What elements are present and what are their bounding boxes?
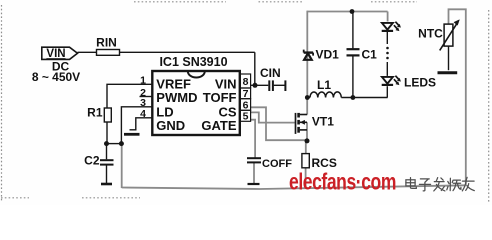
svg-text:LD: LD (156, 104, 173, 119)
svg-text:7: 7 (243, 88, 249, 100)
svg-text:8 ~ 450V: 8 ~ 450V (32, 70, 80, 84)
svg-text:CIN: CIN (260, 66, 281, 80)
svg-text:VD1: VD1 (316, 47, 340, 61)
svg-text:PWMD: PWMD (156, 90, 197, 105)
svg-text:TOFF: TOFF (203, 90, 237, 105)
svg-text:COFF: COFF (262, 158, 292, 170)
svg-text:4: 4 (140, 108, 146, 120)
svg-text:C2: C2 (84, 154, 100, 168)
svg-text:1: 1 (140, 75, 146, 87)
svg-text:VIN: VIN (46, 48, 65, 60)
svg-text:R1: R1 (87, 106, 103, 120)
svg-text:elecfans·com: elecfans·com (289, 170, 396, 195)
svg-text:GATE: GATE (201, 118, 236, 133)
svg-text:GND: GND (156, 118, 185, 133)
svg-text:C1: C1 (362, 47, 378, 61)
svg-text:NTC: NTC (418, 27, 443, 41)
svg-text:LEDS: LEDS (404, 76, 436, 90)
svg-text:5: 5 (243, 111, 249, 123)
svg-text:CS: CS (218, 104, 236, 119)
svg-text:RCS: RCS (312, 156, 337, 170)
svg-text:VT1: VT1 (312, 114, 334, 128)
svg-text:IC1 SN3910: IC1 SN3910 (159, 55, 227, 69)
svg-text:L1: L1 (317, 78, 331, 92)
svg-text:8: 8 (243, 76, 249, 88)
svg-text:RIN: RIN (96, 35, 117, 49)
